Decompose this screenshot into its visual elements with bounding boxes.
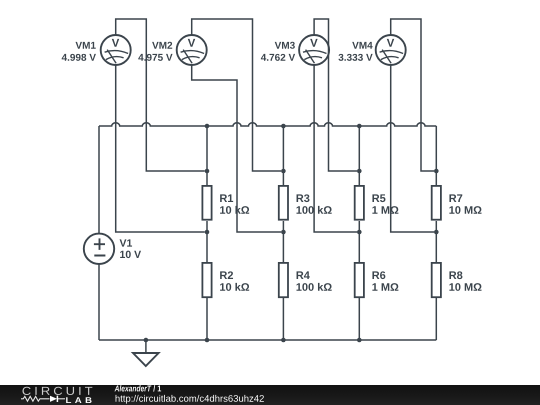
wire: VM3 top lead to resistor column top node — [314, 19, 357, 171]
junction: column 1 R1 top node — [205, 169, 210, 174]
wire: column 3 vertical bus to R5 top — [358, 126, 360, 185]
wire: R1 bottom to midpoint — [206, 221, 208, 262]
value label R3 100 kΩ — [296, 194, 331, 214]
junction: column 1 ground bus — [205, 338, 210, 343]
label VM1 V glyph — [112, 39, 119, 47]
wire: V1 top lead to bus — [98, 126, 100, 234]
label VM3 V glyph — [310, 39, 317, 47]
wire: R4 bottom to ground bus — [282, 298, 284, 340]
voltmeter VM3 — [299, 35, 329, 65]
voltmeter VM1 — [101, 35, 131, 65]
junction: column 4 midpoint node — [434, 230, 439, 235]
junction: column 1 midpoint node — [205, 230, 210, 235]
wire: VM4 bottom lead to resistor column midpoint — [391, 65, 434, 232]
value label VM4 3.333 V — [338, 42, 372, 61]
voltage source V1 — [84, 234, 114, 264]
wire: R7 bottom to midpoint — [435, 221, 437, 262]
voltmeter VM2 — [177, 35, 207, 65]
wire: R6 bottom to ground bus — [358, 298, 360, 340]
junction: ground to bottom bus — [144, 338, 149, 343]
wire: column 2 vertical bus to R3 top — [282, 126, 284, 185]
ground — [133, 340, 159, 366]
value label R5 1 MΩ — [372, 194, 398, 213]
footer url text — [116, 395, 264, 404]
resistor R6 — [355, 263, 364, 297]
resistor R5 — [355, 186, 364, 220]
wire: V1 bottom lead to ground bus — [98, 264, 100, 340]
value label R8 10 MΩ — [449, 271, 481, 291]
junction: column 3 R5 top node — [357, 169, 362, 174]
resistor R3 — [279, 186, 288, 220]
resistor R4 — [279, 263, 288, 297]
value label R7 10 MΩ — [449, 194, 481, 213]
value label VM1 4.998 V — [62, 42, 96, 61]
wire: VM4 top lead to resistor column top node — [391, 19, 434, 171]
junction: column 2 ground bus — [281, 338, 286, 343]
resistor R2 — [202, 263, 211, 297]
junction: column 2 R3 top node — [281, 169, 286, 174]
label VM2 V glyph — [188, 39, 195, 47]
junction: column 1 top bus — [205, 124, 210, 129]
junction: column 3 ground bus — [357, 338, 362, 343]
wire: R2 bottom to ground bus — [206, 298, 208, 340]
footer author text AlexanderT / 1 — [114, 385, 151, 391]
wire: column 1 vertical bus to R1 top — [206, 126, 208, 185]
wire: ground bottom bus — [99, 339, 436, 341]
wire: VM1 top lead to resistor column top node — [116, 19, 205, 171]
resistor R1 — [202, 186, 211, 220]
label VM4 V glyph — [387, 39, 394, 47]
junction: column 2 top bus — [281, 124, 286, 129]
wire: VM1 bottom lead to resistor column midpoint — [116, 65, 205, 232]
value label VM3 4.762 V — [261, 42, 295, 61]
wire: VM2 bottom lead to resistor column midpoint — [192, 65, 281, 232]
CircuitLab logo — [0, 383, 300, 405]
value label VM2 4.975 V — [138, 42, 172, 61]
junction: column 3 top bus — [357, 124, 362, 129]
wire: column 4 vertical bus to R7 top — [435, 126, 437, 185]
junction: column 4 R7 top node — [434, 169, 439, 174]
wire: R5 bottom to midpoint — [358, 221, 360, 262]
wire: VM2 top lead to resistor column top node — [192, 19, 281, 171]
value label R6 1 MΩ — [372, 271, 398, 290]
resistor R8 — [432, 263, 441, 297]
wire: VM3 bottom lead to resistor column midpoint — [314, 65, 357, 232]
resistor R7 — [432, 186, 441, 220]
value label R1 10 kΩ — [220, 194, 249, 213]
junction: column 3 midpoint node — [357, 230, 362, 235]
value label R2 10 kΩ — [220, 271, 249, 291]
wire: R3 bottom to midpoint — [282, 221, 284, 262]
value label R4 100 kΩ — [296, 271, 331, 290]
junction: column 2 midpoint node — [281, 230, 286, 235]
wire: R8 bottom to ground bus — [435, 298, 437, 340]
value label V1 10 V — [120, 239, 141, 258]
wire: +V top bus from V1 to R7 column with crossover hops — [99, 123, 436, 126]
voltmeter VM4 — [376, 35, 406, 65]
